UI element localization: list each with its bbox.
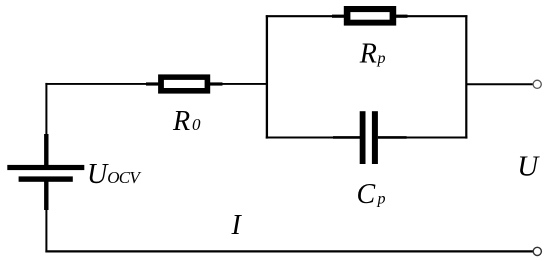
wire: top edge right segment	[407, 15, 467, 17]
label R0	[172, 106, 201, 137]
wire: left vertical upper thin	[45, 83, 47, 136]
svg-text:U: U	[87, 159, 109, 190]
wire: output wire to terminal	[466, 83, 533, 85]
label U_OCV	[87, 159, 142, 190]
wire: top-left horizontal from battery branch to R0	[45, 83, 147, 85]
wire: battery bottom lead (thick)	[44, 182, 48, 211]
resistor R0	[158, 74, 210, 93]
wire: left vertical lower thin	[45, 209, 47, 253]
terminal: negative output	[533, 247, 541, 255]
wire: parallel block left vertical	[266, 15, 268, 138]
label Cp	[357, 179, 386, 210]
svg-text:0: 0	[192, 115, 201, 134]
wire: parallel block right vertical	[465, 15, 467, 138]
wire: R0 left lead	[146, 82, 159, 85]
label Rp	[359, 38, 386, 69]
svg-text:I: I	[231, 210, 243, 241]
wire: battery top lead (thick)	[44, 134, 48, 166]
wire: Rp right lead	[395, 15, 407, 18]
wire: R0 right lead	[210, 82, 223, 85]
wire: R0 to parallel block	[222, 83, 268, 85]
wire: bottom edge left segment	[266, 136, 334, 138]
wire: Cp left lead	[333, 136, 361, 139]
terminal: positive output	[533, 80, 541, 88]
capacitor Cp	[360, 111, 378, 164]
svg-text:OCV: OCV	[107, 168, 142, 187]
svg-text:p: p	[377, 191, 386, 208]
svg-text:R: R	[359, 38, 377, 69]
wire: bottom edge right segment	[406, 136, 467, 138]
resistor Rp	[344, 6, 396, 26]
wire: Rp left lead	[332, 15, 345, 18]
svg-text:U: U	[517, 151, 540, 183]
wire: top edge left segment	[266, 15, 333, 17]
wire: bottom horizontal	[45, 250, 533, 252]
svg-text:C: C	[357, 179, 376, 210]
battery U_OCV	[7, 165, 84, 182]
svg-text:R: R	[172, 106, 190, 137]
wire: Cp right lead	[378, 136, 407, 139]
svg-text:p: p	[377, 50, 386, 67]
